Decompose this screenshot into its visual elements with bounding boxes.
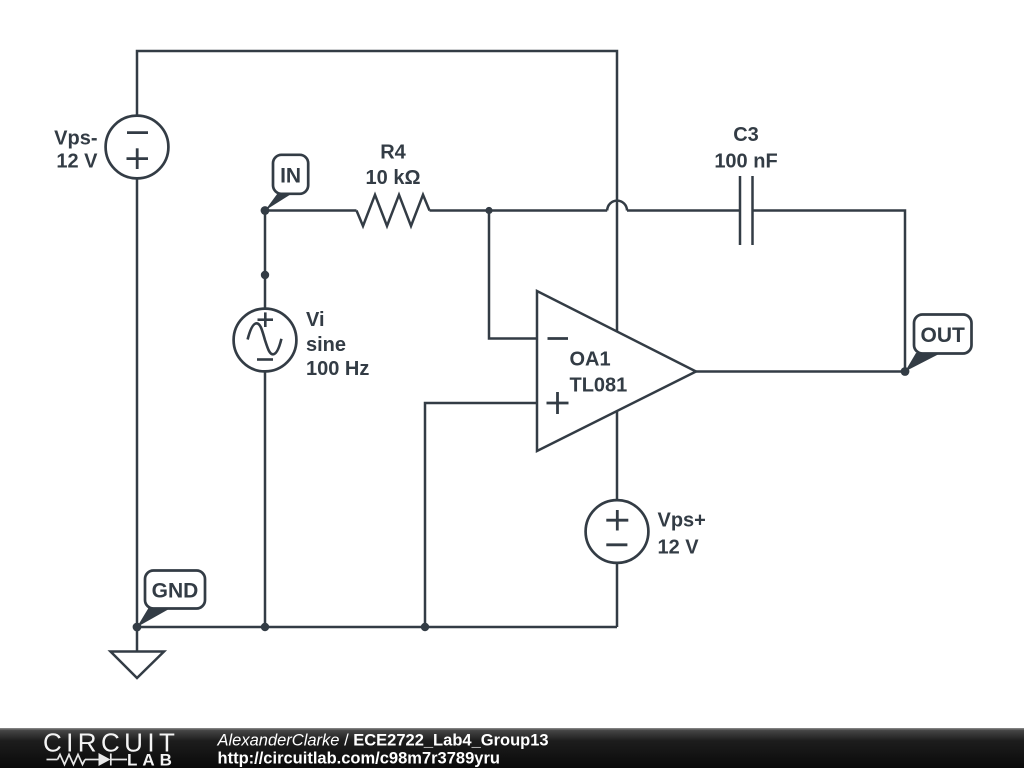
flag GND (137, 571, 205, 628)
junction dot node IN (261, 206, 270, 215)
wire IN node to resistor (265, 209, 357, 212)
logo diode triangle (99, 753, 111, 766)
op-amp OA1 triangle body (537, 291, 696, 451)
junction dot feedback branch (485, 207, 492, 214)
svg-text:http://circuitlab.com/c98m7r37: http://circuitlab.com/c98m7r3789yru (218, 750, 500, 768)
svg-text:IN: IN (280, 165, 301, 188)
voltage source Vps+ (586, 500, 649, 563)
wire Vi branch lower (264, 373, 267, 628)
wire non-inverting input branch (425, 403, 537, 627)
wire Vi branch upper (264, 211, 267, 309)
sine wave inside Vi (248, 323, 282, 354)
wire hop over vertical (607, 201, 627, 211)
wire hop to capacitor (627, 209, 740, 212)
svg-text:12 V: 12 V (56, 151, 98, 173)
svg-text:Vi: Vi (306, 309, 325, 331)
capacitor C3 plates (740, 176, 753, 245)
wire bottom rail (137, 626, 617, 629)
logo schematic line with resistor and diode (47, 754, 128, 766)
wire left rail lower (136, 179, 139, 627)
junction dot Vi top (261, 271, 269, 279)
op-amp plus input symbol (547, 392, 569, 414)
svg-text:Vps-: Vps- (54, 127, 97, 149)
ground symbol (111, 652, 165, 679)
svg-text:GND: GND (152, 580, 199, 603)
resistor R4 zigzag (357, 195, 430, 226)
svg-text:OA1: OA1 (570, 349, 611, 371)
wire capacitor to right corner, down to OUT node (753, 211, 906, 372)
svg-text:LAB: LAB (127, 751, 177, 768)
wire resistor to hop (430, 209, 608, 212)
voltage source Vps- (106, 116, 169, 179)
svg-text:R4: R4 (380, 142, 406, 164)
wire op-amp output (696, 370, 905, 373)
junction dot node OUT (901, 367, 910, 376)
wire Vps+ bottom to rail (616, 564, 619, 627)
flag OUT (905, 315, 972, 372)
flag IN (265, 155, 308, 211)
svg-text:100 Hz: 100 Hz (306, 358, 369, 380)
junction dot plus branch bottom (421, 623, 429, 631)
svg-text:sine: sine (306, 334, 346, 356)
svg-text:Vps+: Vps+ (658, 510, 706, 532)
svg-text:C3: C3 (733, 124, 759, 146)
junction dot Vi bottom (261, 623, 269, 631)
junction dot node GND (133, 623, 142, 632)
svg-text:TL081: TL081 (570, 375, 628, 397)
wire ground stub (136, 627, 139, 652)
svg-text:AlexanderClarke / ECE2722_Lab4: AlexanderClarke / ECE2722_Lab4_Group13 (217, 732, 549, 750)
voltage source Vi (sine) (234, 309, 297, 372)
svg-text:OUT: OUT (921, 324, 966, 347)
svg-text:10 kΩ: 10 kΩ (366, 167, 421, 189)
svg-text:100 nF: 100 nF (714, 151, 777, 173)
svg-text:12 V: 12 V (658, 537, 700, 559)
op-amp minus input symbol (548, 337, 569, 340)
wire inverting input branch (489, 211, 537, 339)
wire top rail (137, 51, 617, 499)
